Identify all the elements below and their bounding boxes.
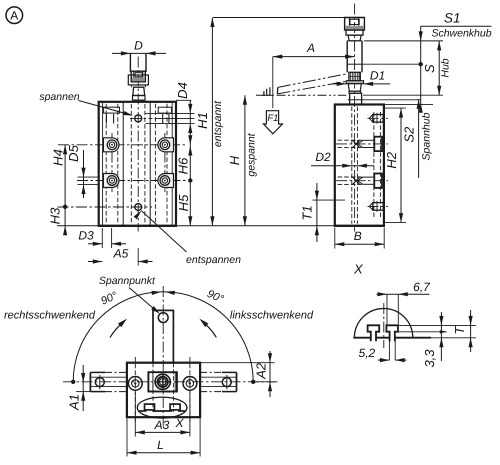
left wing hole	[95, 375, 104, 389]
leader spannen	[39, 91, 133, 116]
svg-text:S2: S2	[401, 126, 416, 143]
svg-text:D5: D5	[66, 144, 81, 161]
dimension A	[273, 41, 355, 108]
svg-text:rechtsschwenkend: rechtsschwenkend	[4, 309, 96, 321]
centre boss square	[148, 372, 177, 391]
svg-text:gespannt: gespannt	[245, 132, 257, 176]
dimension 6,7	[377, 280, 432, 325]
dimension D1	[333, 69, 391, 87]
dimension A1	[67, 365, 91, 411]
force arrow F1	[263, 111, 282, 134]
dimension H gespannt	[227, 95, 257, 226]
side hole bottom-left	[103, 174, 119, 188]
front view inner edge lines	[103, 102, 173, 226]
lower small port (side view)	[368, 201, 389, 212]
svg-text:H2: H2	[384, 151, 399, 168]
svg-text:Spannpunkt: Spannpunkt	[99, 275, 156, 287]
dimension 3,3	[422, 312, 444, 368]
svg-text:B: B	[354, 229, 362, 243]
svg-text:Spannhub: Spannhub	[420, 112, 432, 160]
dimension L	[127, 419, 200, 457]
washer under top nut (side view)	[346, 30, 363, 35]
dimension A3	[135, 392, 190, 437]
t-slot base segments (bottom view)	[139, 410, 185, 412]
right wing hole	[222, 375, 231, 389]
label linksschwenkend	[230, 309, 314, 321]
detail X t-slot left unit	[368, 325, 380, 341]
clamp arm horizontal position (phantom)	[256, 94, 346, 96]
side hole top-right	[158, 138, 174, 152]
detail X dome outline	[354, 309, 412, 338]
hole row centerlines	[58, 145, 186, 181]
side view port bore hidden lines	[374, 112, 381, 218]
front view hidden lines	[106, 104, 167, 224]
left port hole (bottom view)	[128, 357, 142, 424]
svg-text:H5: H5	[176, 194, 191, 211]
mounting surface baseline	[57, 225, 384, 227]
svg-text:L: L	[157, 438, 164, 452]
svg-text:H3: H3	[48, 207, 63, 224]
lower air port (side view)	[336, 174, 388, 188]
rod joint extension to S line	[362, 63, 421, 65]
label 90 degrees left	[99, 290, 120, 308]
dimension T1	[300, 183, 346, 242]
arc angle arrows	[152, 291, 175, 295]
svg-text:A2: A2	[254, 362, 269, 380]
svg-text:5,2: 5,2	[359, 346, 376, 360]
dimension S1 Schwenkhub	[364, 10, 492, 113]
detail X label	[353, 262, 364, 277]
svg-text:A3: A3	[154, 418, 170, 432]
dimension D (rod diameter)	[112, 39, 166, 56]
dimension S Hub	[363, 41, 452, 95]
label X reference	[174, 416, 184, 430]
dimension A5	[88, 247, 153, 266]
svg-text:D1: D1	[370, 69, 385, 83]
dimension line D4/H1/H6/H5 (right stack)	[146, 82, 211, 226]
rod joint line	[347, 63, 362, 65]
view label A (circle)	[6, 7, 23, 24]
collar (front view)	[132, 85, 146, 95]
clamp arm swivelled (phantom)	[277, 74, 347, 94]
detail X t-slot right unit	[386, 325, 398, 341]
svg-text:3,3: 3,3	[422, 349, 437, 368]
hole column centerlines	[112, 133, 165, 192]
svg-text:A5: A5	[113, 247, 129, 261]
rod boss into body (front view)	[133, 96, 146, 102]
side view body bottom edge (thick)	[335, 225, 384, 227]
port spannen (top centre hole)	[130, 115, 153, 122]
side hole top-left	[103, 138, 119, 152]
front view body outline	[99, 102, 176, 226]
bottom view horizontal centerline	[63, 381, 278, 383]
left mounting wing	[90, 372, 127, 391]
washer D1 (side view)	[346, 81, 363, 84]
svg-text:T: T	[452, 325, 467, 334]
svg-text:Schwenkhub: Schwenkhub	[431, 28, 491, 40]
dimension 5,2	[359, 339, 407, 363]
dimension H2	[384, 108, 406, 223]
svg-text:Hub: Hub	[440, 58, 452, 77]
label 90 degrees right	[205, 288, 226, 306]
rod boss into body (side view)	[348, 91, 364, 104]
leader Spannpunkt	[99, 275, 160, 314]
svg-text:A: A	[306, 41, 315, 55]
dimension T (detail)	[452, 310, 473, 352]
svg-text:H4: H4	[51, 149, 66, 166]
side view body outline	[335, 105, 384, 226]
threaded collar D1 (side view)	[349, 72, 360, 80]
t-slot oval pad	[137, 397, 187, 418]
dimension H entspannt	[210, 18, 224, 226]
dimension D3	[78, 228, 126, 248]
right mounting wing	[200, 372, 236, 391]
bottom view vertical centerline	[162, 286, 164, 428]
piston rod (side view)	[347, 41, 362, 73]
detail X centerline	[383, 303, 385, 348]
hex nut (front view)	[131, 71, 145, 82]
svg-text:S1: S1	[444, 10, 461, 25]
swing direction arrow right	[199, 319, 216, 338]
svg-text:entspannt: entspannt	[212, 100, 224, 147]
svg-text:H6: H6	[176, 157, 191, 174]
front view pocket top-right	[158, 107, 171, 123]
swivel range arc 180deg	[71, 292, 255, 384]
svg-text:T1: T1	[300, 205, 315, 220]
svg-text:D2: D2	[315, 150, 331, 164]
svg-text:H: H	[227, 155, 242, 165]
front view vertical centerline	[137, 57, 139, 232]
svg-text:S: S	[422, 64, 437, 73]
front view pocket top-left	[104, 107, 120, 123]
t-slot profile right unit (bottom view)	[170, 404, 180, 410]
svg-text:F1: F1	[267, 113, 278, 124]
svg-text:D4: D4	[175, 82, 190, 99]
port entspannen (bottom centre hole)	[58, 204, 153, 211]
upper small port (side view)	[368, 113, 389, 124]
bottom view body outline	[127, 363, 200, 418]
svg-text:D3: D3	[78, 229, 94, 243]
svg-text:6,7: 6,7	[413, 280, 431, 294]
side view rod bore hidden lines	[352, 107, 358, 224]
centre boss circles	[155, 374, 170, 389]
side view rod centerline	[354, 4, 356, 232]
clamp arm (bottom view)	[153, 310, 173, 412]
swing direction arrow left	[110, 319, 127, 338]
svg-text:linksschwenkend: linksschwenkend	[230, 309, 314, 321]
piston rod (front view)	[130, 53, 146, 72]
svg-text:entspannen: entspannen	[186, 254, 241, 266]
clamp point hole	[158, 313, 168, 323]
hex nut on rod top (side view)	[344, 18, 364, 31]
dimension A2	[200, 351, 275, 397]
svg-text:spannen: spannen	[39, 91, 79, 103]
right port hole (bottom view)	[183, 357, 197, 424]
washer flange (front view)	[128, 75, 148, 85]
svg-text:A1: A1	[67, 394, 82, 411]
detail X base line segments	[353, 337, 431, 339]
top collar taper (side view)	[348, 35, 361, 41]
dimension S2 Spannhub	[364, 99, 433, 178]
svg-text:D: D	[134, 39, 143, 53]
dimension D5	[66, 144, 98, 198]
dimension D2	[311, 150, 374, 168]
adapter taper (side view)	[348, 84, 361, 92]
front view bore hidden lines	[131, 104, 145, 224]
front view body bottom edge (thick)	[99, 225, 176, 227]
leader entspannen	[134, 211, 241, 266]
upper air port (side view)	[336, 137, 388, 151]
svg-text:X: X	[174, 416, 184, 430]
detail X extension lines right	[399, 325, 476, 337]
clamp contact point marks	[262, 87, 272, 95]
svg-text:A: A	[10, 9, 18, 23]
svg-text:X: X	[353, 262, 364, 277]
dimension B	[335, 228, 384, 249]
side hole bottom-right	[158, 174, 174, 188]
label rechtsschwenkend	[4, 309, 96, 321]
t-slot profile left unit (bottom view)	[145, 404, 155, 410]
extension line rod top entspannt	[213, 17, 344, 19]
dimension line H4/H3 (left stack)	[48, 145, 68, 236]
svg-text:H1: H1	[195, 112, 210, 129]
